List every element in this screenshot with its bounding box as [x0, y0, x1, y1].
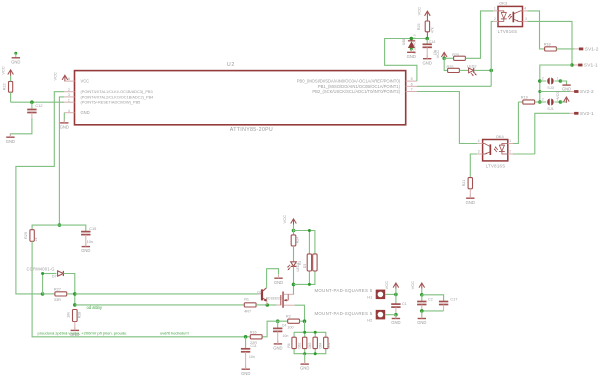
svg-text:GND: GND — [81, 110, 90, 115]
resistor R23 — [417, 21, 435, 39]
wire MOSFET source to R2 junction — [295, 305, 305, 321]
wire C12 to ground — [10, 118, 32, 137]
svg-text:VCC: VCC — [435, 50, 440, 59]
svg-text:ověřit hodnotu!!!: ověřit hodnotu!!! — [160, 330, 189, 335]
solder jumper SJ3 — [540, 76, 561, 89]
vref U$8 LT1004CZ-2.5 — [402, 34, 416, 54]
ground GND (C1) — [391, 315, 400, 325]
svg-text:R23: R23 — [417, 24, 421, 31]
connector SV2-2 — [540, 89, 594, 95]
junction LED1/D3 bottom row — [292, 283, 296, 287]
resistor R1 — [244, 297, 256, 313]
svg-text:R2: R2 — [286, 315, 291, 319]
resistor R6 — [287, 337, 296, 348]
resistor R29 — [24, 230, 38, 242]
U2 pin 7 stub — [406, 88, 417, 92]
junction SV2-2 tap — [538, 90, 541, 93]
diode D62 — [298, 337, 307, 348]
svg-text:10k: 10k — [67, 312, 71, 318]
junction AREF/R23/C14 — [425, 37, 429, 41]
svg-text:SJ1: SJ1 — [547, 107, 554, 111]
OK3 pin 4 stub — [523, 7, 528, 11]
svg-text:D64: D64 — [319, 342, 323, 348]
junction R27 right / base row — [73, 292, 77, 296]
junction SJ3 pin1 — [559, 79, 563, 83]
wire OK4 pin2 to SV2-1 — [513, 153, 535, 155]
wire C2 bottom to ground — [421, 311, 423, 318]
svg-text:100: 100 — [287, 326, 293, 330]
optocoupler OK4 LTV816S — [483, 134, 508, 168]
junction LED2/PB1 — [489, 69, 493, 73]
ground GND (C14) — [423, 55, 432, 65]
junction SV1-1 — [570, 63, 574, 67]
junction network bottom a — [303, 352, 306, 355]
capacitor C4 — [273, 321, 288, 343]
junction C12/PB5 — [30, 100, 34, 104]
svg-text:GND: GND — [274, 280, 283, 285]
U2 pin 6 stub — [406, 82, 417, 86]
resistor R20 — [444, 53, 465, 61]
capacitor C17 — [439, 298, 457, 311]
junction PB4/R29/C15 — [58, 223, 62, 227]
svg-text:GND: GND — [391, 320, 400, 325]
svg-text:U2: U2 — [227, 62, 235, 68]
svg-text:MOUNT-PAD-SQUARES 5: MOUNT-PAD-SQUARES 5 — [315, 288, 373, 293]
resistor R16 — [246, 330, 263, 345]
svg-text:LTV816S: LTV816S — [486, 163, 506, 168]
svg-text:D62: D62 — [298, 342, 302, 348]
svg-text:H1: H1 — [367, 295, 373, 300]
ground GND (C15) — [81, 243, 90, 253]
ground GND (top-left stub) — [11, 52, 20, 65]
svg-text:VCC: VCC — [52, 72, 57, 81]
svg-text:VCC: VCC — [416, 7, 421, 16]
svg-text:G02: G02 — [327, 342, 331, 348]
U2 pin 4 GND stub — [64, 109, 74, 113]
resistor network D3 left element — [298, 254, 311, 271]
svg-text:2: 2 — [494, 17, 496, 21]
svg-text:OK3: OK3 — [499, 1, 508, 6]
junction Q2 emitter / R1 row — [266, 303, 270, 307]
svg-text:SV2-1: SV2-1 — [580, 111, 594, 117]
optocoupler OK3 LTV816S — [498, 1, 523, 34]
wire R19 to OK4 pin1 — [513, 102, 518, 144]
connector SV1-1 — [574, 63, 598, 69]
svg-text:VCC: VCC — [384, 281, 389, 290]
svg-text:R21: R21 — [462, 180, 466, 187]
svg-text:1: 1 — [68, 98, 70, 102]
svg-text:SJ3: SJ3 — [547, 86, 554, 90]
U2 pin 2 stub — [64, 88, 74, 92]
junction D3 left top — [308, 229, 311, 232]
svg-text:LED2: LED2 — [467, 65, 477, 69]
svg-text:GND: GND — [60, 125, 69, 130]
resistor R28 — [67, 310, 82, 331]
junction R19/SJ1 pin2 — [538, 100, 542, 104]
svg-text:SV1-2: SV1-2 — [585, 47, 599, 53]
svg-text:1: 1 — [494, 7, 496, 11]
diode D64 — [319, 337, 331, 348]
ground GND (R28) — [70, 327, 79, 337]
svg-text:C2: C2 — [428, 298, 433, 302]
wire H1 to VCC node — [385, 293, 396, 295]
svg-text:LT1004CZ-2.5: LT1004CZ-2.5 — [412, 34, 416, 54]
junction R24/D3 top — [292, 229, 296, 233]
wire net PB3 (U2 pin2 down to R27) — [16, 92, 64, 294]
mount pad H1 — [315, 288, 386, 300]
OK4 pin 4 stub — [477, 139, 483, 143]
junction SJ3 pin2 — [538, 79, 542, 83]
resistor R18 — [544, 42, 557, 51]
OK3 pin 2 stub — [493, 17, 498, 21]
svg-text:C1: C1 — [402, 302, 407, 306]
svg-text:2: 2 — [542, 97, 544, 101]
wire D3 bottoms row — [294, 271, 315, 284]
svg-text:10n: 10n — [249, 355, 255, 359]
U2 pin 3 stub — [64, 93, 74, 97]
svg-text:GND: GND — [241, 371, 250, 376]
svg-text:2: 2 — [509, 150, 511, 154]
junction network bottom b — [314, 352, 317, 355]
ground GND (C4) — [273, 341, 282, 351]
resistor R22 — [3, 81, 13, 92]
resistor R19 — [518, 95, 539, 104]
svg-text:R20: R20 — [452, 53, 459, 57]
solder jumper SJ1 — [540, 97, 561, 111]
wire network to ground — [304, 354, 306, 364]
wire SV1-1 to SJ3 and SV2-2 — [540, 65, 572, 102]
svg-text:H2: H2 — [367, 317, 373, 322]
U2 pin 5 stub — [406, 77, 417, 81]
svg-text:(POINT4/XTAL2/CLKO/OC1B/ADC2)_: (POINT4/XTAL2/CLKO/OC1B/ADC2)_PB4 — [81, 95, 155, 99]
resistor R25 — [447, 65, 460, 73]
wire R27-left up to D7 anode — [43, 274, 57, 294]
svg-text:5: 5 — [411, 77, 413, 81]
svg-text:R24: R24 — [296, 237, 300, 244]
LED LED1 — [287, 246, 300, 272]
svg-text:PB2_(SCK/USCK/SCL/ADC1/T0/INT0: PB2_(SCK/USCK/SCL/ADC1/T0/INT0/POINT2) — [312, 89, 400, 94]
svg-text:C12: C12 — [35, 103, 42, 108]
svg-text:SV1-1: SV1-1 — [584, 63, 598, 69]
transistor Q2 — [257, 288, 282, 305]
OK3 pin 1 stub — [493, 7, 498, 11]
junction network top a — [303, 331, 306, 334]
svg-text:C4: C4 — [282, 324, 287, 328]
capacitor C1 — [391, 294, 407, 314]
svg-text:8: 8 — [68, 77, 70, 81]
junction C2 top — [420, 293, 424, 297]
svg-text:7: 7 — [411, 88, 413, 92]
wire U2 pin4 to ground — [63, 113, 65, 123]
capacitor C11 — [241, 337, 257, 369]
power VCC (R22 top) — [0, 66, 13, 76]
svg-text:C17: C17 — [450, 298, 457, 302]
svg-text:3: 3 — [478, 150, 480, 154]
power VCC (R24) — [282, 215, 297, 225]
svg-text:OK4: OK4 — [496, 134, 505, 139]
ground GND (below C12) — [6, 134, 15, 144]
svg-text:GND: GND — [300, 366, 309, 371]
wire R1 row — [75, 304, 245, 306]
OK3 pin 3 stub — [523, 17, 528, 21]
wire net AREF (U2 pin5 to reference rail) — [385, 39, 428, 82]
resistor R27 — [43, 287, 75, 302]
diode D63 — [308, 337, 317, 348]
connector SV2-1 — [535, 111, 594, 154]
svg-text:10n: 10n — [87, 239, 94, 244]
svg-text:2: 2 — [542, 76, 544, 80]
svg-text:C11: C11 — [250, 344, 256, 348]
wire R1 right to gate — [256, 304, 280, 306]
svg-text:3: 3 — [68, 93, 70, 97]
svg-text:(POINT3/XTAL1/CLKI/-OC1B/ADC3): (POINT3/XTAL1/CLKI/-OC1B/ADC3)_PB3 — [81, 90, 153, 94]
diode D7 CGRM4001-G — [27, 267, 64, 279]
ground GND (U$8) — [407, 49, 416, 59]
U2 pin 1 stub — [64, 98, 74, 102]
OK4 pin 1 stub — [508, 139, 513, 143]
svg-text:D63: D63 — [308, 342, 312, 348]
junction C1 top — [394, 293, 398, 297]
wire OK3 pin3 to SV1-1 — [528, 21, 573, 65]
junction R28 top / R1 row — [73, 303, 77, 307]
wire VCC to R25 — [444, 58, 447, 70]
svg-text:VCC: VCC — [555, 90, 560, 99]
wire net PB5 (R22 to U2 pin1) — [11, 76, 65, 103]
svg-text:47k: 47k — [430, 27, 434, 33]
svg-text:MOUNT-PAD-SQUARES 5: MOUNT-PAD-SQUARES 5 — [315, 311, 373, 316]
wire R16 to R2 row — [262, 321, 288, 337]
svg-text:R3: R3 — [298, 261, 302, 265]
wire net PB2 (pin7 to OK4 pin4) — [417, 92, 477, 144]
junction AREF/U$8 — [410, 37, 414, 41]
wire source node down to diode network — [304, 321, 306, 332]
svg-text:R1: R1 — [244, 297, 249, 301]
capacitor C2 — [417, 295, 433, 311]
wire LED1 cathode down to drain — [293, 267, 295, 295]
power VCC (C2) — [410, 281, 424, 295]
svg-text:R18: R18 — [544, 42, 551, 46]
power VCC (R20) — [435, 50, 447, 59]
resistor R21 — [462, 178, 473, 198]
svg-text:GND: GND — [6, 139, 15, 144]
svg-text:VCC: VCC — [0, 66, 5, 75]
svg-text:4: 4 — [68, 109, 70, 113]
wire R29/C15 top rail — [32, 225, 86, 231]
svg-text:33R: 33R — [54, 298, 61, 302]
svg-text:VCC: VCC — [282, 215, 287, 224]
U2 pin 8 VCC stub — [64, 77, 74, 81]
svg-text:R27: R27 — [54, 287, 61, 291]
junction VCC/R20/R25 — [442, 57, 446, 61]
IC U2 ATTINY85-20PU — [75, 62, 406, 133]
wire Q2 collector to ground — [267, 269, 279, 288]
svg-text:GND: GND — [423, 60, 432, 65]
capacitor C14 — [423, 39, 438, 59]
svg-text:R22: R22 — [3, 83, 7, 90]
wire R29 bottom long run to R16 row — [32, 241, 246, 336]
wire VCC rail to D3 tops — [294, 225, 315, 254]
svg-text:od attiny: od attiny — [87, 305, 103, 310]
wire OK3 pin4 to R18 — [528, 11, 545, 49]
resistor network D3 right element — [303, 254, 317, 271]
wire diode network top rail — [294, 332, 326, 337]
svg-text:GND: GND — [417, 320, 426, 325]
ground GND (C2) — [417, 315, 426, 325]
ground GND (SJ3) — [562, 85, 571, 92]
ground GND (Q2 collector) — [274, 275, 283, 285]
svg-text:6: 6 — [411, 82, 413, 86]
wire OK4 pin3 to R21 — [470, 154, 477, 178]
power VCC (C1) — [384, 281, 399, 295]
wire C17 bottom to C2 bottom — [422, 310, 444, 312]
mount pad H2 — [315, 310, 386, 323]
wire R20 to OK3 pin1 — [465, 11, 493, 58]
svg-text:D3: D3 — [303, 264, 307, 268]
svg-text:GND: GND — [407, 54, 416, 59]
svg-text:(POINT5/-RESET/ADC0/DW)_PB5: (POINT5/-RESET/ADC0/DW)_PB5 — [81, 101, 141, 105]
svg-text:C14: C14 — [429, 40, 436, 44]
ground GND (C11) — [241, 366, 250, 376]
svg-text:R25: R25 — [447, 65, 454, 69]
junction PB3/R27 left — [41, 292, 45, 296]
wire diode network bottom rail — [294, 349, 326, 354]
junction SJ1 pin1 — [559, 100, 563, 104]
resistor R24 — [291, 231, 299, 246]
svg-text:U$8: U$8 — [402, 39, 406, 45]
svg-text:10n: 10n — [282, 334, 288, 338]
wire base row to Q2 — [75, 293, 261, 295]
junction U$8 anode — [410, 48, 413, 51]
wire D7 cathode down to R28 node — [63, 274, 74, 305]
ground GND (R21) — [466, 195, 475, 205]
ground GND (diode network) — [300, 361, 309, 371]
svg-text:GND: GND — [273, 346, 282, 351]
wire LED2 to PB1 node — [474, 69, 491, 71]
svg-text:4R7: 4R7 — [244, 309, 251, 313]
svg-text:R19: R19 — [521, 95, 528, 99]
svg-text:3: 3 — [525, 17, 527, 21]
LED LED2 — [459, 65, 476, 77]
wire net PB4 (U2 pin3 down to R29/C15) — [59, 97, 64, 225]
svg-text:R28: R28 — [77, 312, 81, 319]
svg-text:R6: R6 — [287, 343, 291, 347]
ground GND (U2 pin4) — [60, 120, 69, 130]
power VCC (U2 pin 8) — [52, 72, 67, 81]
svg-text:4: 4 — [478, 139, 480, 143]
svg-text:2: 2 — [68, 88, 70, 92]
junction R16 left / C11 — [244, 335, 248, 339]
capacitor C12 — [27, 102, 42, 118]
svg-text:LTV816S: LTV816S — [498, 29, 518, 34]
power VCC (R23) — [416, 7, 430, 21]
junction network top b — [314, 331, 317, 334]
svg-text:Q2: Q2 — [257, 291, 262, 295]
junction R2 left / C4 — [276, 319, 280, 323]
capacitor C15 — [81, 226, 96, 246]
svg-text:proudová zpětná vazba, +200mV: proudová zpětná vazba, +200mV při jmen. … — [38, 330, 127, 335]
wire H2 to C1 bottom — [385, 315, 396, 319]
wire C2 to C17 top — [422, 295, 444, 302]
svg-text:BD183023: BD183023 — [266, 297, 282, 301]
svg-text:SV2-2: SV2-2 — [580, 89, 594, 95]
OK4 pin 3 stub — [477, 150, 483, 154]
svg-text:VCC: VCC — [81, 79, 90, 84]
transistor Q3 MOSFET — [280, 292, 294, 308]
connector SV1-2 — [556, 47, 598, 53]
svg-text:CGRM4001-G: CGRM4001-G — [27, 267, 55, 272]
svg-text:D7: D7 — [52, 275, 57, 279]
junction D7 anode branch — [41, 272, 44, 275]
wire R2 right — [300, 320, 305, 322]
svg-text:R29: R29 — [24, 232, 28, 239]
svg-text:VCC: VCC — [410, 281, 415, 290]
svg-text:1: 1 — [557, 76, 559, 80]
svg-text:4: 4 — [524, 7, 526, 11]
svg-text:C15: C15 — [89, 226, 96, 231]
wire SJ3 to ground — [560, 81, 566, 85]
OK4 pin 2 stub — [508, 150, 513, 154]
svg-text:1: 1 — [509, 139, 511, 143]
wire net PB1 (pin6 row / OK3 pin2 vertical) — [417, 21, 493, 86]
svg-text:ATTINY85-20PU: ATTINY85-20PU — [230, 127, 273, 133]
svg-text:1k: 1k — [34, 237, 38, 241]
svg-text:GND: GND — [466, 200, 475, 205]
svg-text:GND: GND — [11, 59, 20, 64]
junction C2 bottom — [420, 309, 424, 313]
junction R2 right / source — [303, 319, 307, 323]
resistor R2 — [286, 315, 300, 330]
power VCC (SJ1) — [555, 90, 569, 102]
junction C1 bottom — [394, 313, 398, 317]
svg-text:R16: R16 — [250, 330, 257, 334]
svg-text:GND: GND — [81, 248, 90, 253]
junction D3 left bottom — [308, 283, 311, 286]
